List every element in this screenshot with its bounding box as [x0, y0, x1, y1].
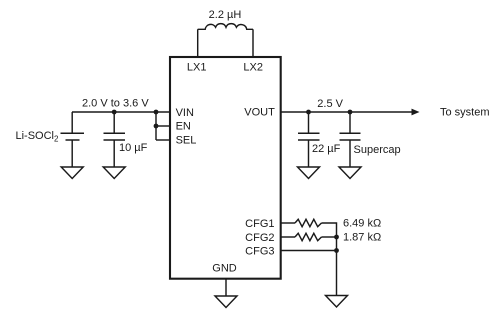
svg-text:Supercap: Supercap: [354, 144, 401, 156]
svg-text:2.5 V: 2.5 V: [317, 98, 343, 110]
wire CFG3: [281, 250, 337, 252]
node (CFG3 junction): [334, 248, 339, 253]
resistor R2 1.87 kΩ: [295, 233, 322, 240]
node (supercap junction): [348, 110, 353, 115]
svg-text:10 µF: 10 µF: [119, 142, 148, 154]
svg-text:2.2 µH: 2.2 µH: [209, 9, 242, 21]
svg-text:CFG3: CFG3: [245, 246, 274, 258]
wire VIN input: [72, 111, 170, 113]
wire SEL: [156, 139, 170, 141]
op-amp U1 (IC body): [170, 57, 281, 279]
node (EN junction): [154, 124, 159, 129]
svg-text:VIN: VIN: [176, 107, 194, 119]
ground (battery): [61, 167, 83, 179]
wire VOUT output: [281, 111, 413, 113]
node (R2/CFG junction): [334, 235, 339, 240]
wire EN/SEL vertical: [155, 112, 157, 140]
svg-text:Li-SOCl2: Li-SOCl2: [16, 130, 60, 144]
node (C2 junction): [306, 110, 311, 115]
svg-text:LX2: LX2: [243, 61, 263, 73]
ground (C3): [339, 167, 361, 179]
svg-text:6.49 kΩ: 6.49 kΩ: [343, 218, 381, 230]
ground (C2): [298, 167, 320, 179]
capacitor C1 10 µF: [104, 112, 126, 167]
ground (C1): [103, 167, 125, 179]
arrow to system: [412, 109, 420, 116]
svg-text:VOUT: VOUT: [244, 107, 275, 119]
capacitor C3 Supercap: [340, 112, 361, 167]
svg-text:1.87 kΩ: 1.87 kΩ: [343, 231, 381, 243]
wire CFG1 lead: [281, 222, 295, 224]
svg-text:SEL: SEL: [176, 135, 197, 147]
ground (CFG): [326, 296, 348, 308]
node (VIN / C1 junction): [112, 110, 117, 115]
wire LX2 lead: [252, 29, 254, 57]
svg-text:EN: EN: [176, 121, 191, 133]
node (EN/SEL branch): [154, 110, 159, 115]
battery BT1 Li-SOCl2: [61, 112, 85, 167]
ground (GND pin): [215, 296, 237, 308]
wire EN: [156, 125, 170, 127]
svg-text:To system: To system: [440, 106, 490, 118]
svg-text:LX1: LX1: [187, 61, 207, 73]
inductor L1 2.2 µH: [198, 24, 253, 30]
wire R2 to node: [322, 236, 337, 238]
svg-text:2.0 V to 3.6 V: 2.0 V to 3.6 V: [82, 98, 149, 110]
wire R1 to node: [322, 223, 337, 237]
wire CFG node to ground: [336, 237, 338, 296]
resistor R1 6.49 kΩ: [295, 219, 322, 226]
capacitor C2 22 µF: [298, 112, 320, 167]
svg-text:CFG1: CFG1: [245, 218, 274, 230]
svg-text:CFG2: CFG2: [245, 232, 274, 244]
svg-text:22 µF: 22 µF: [312, 143, 341, 155]
wire CFG2 lead: [281, 236, 295, 238]
wire LX1 lead: [197, 29, 199, 57]
svg-text:GND: GND: [212, 263, 237, 275]
wire GND: [225, 279, 227, 296]
